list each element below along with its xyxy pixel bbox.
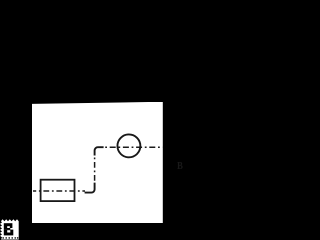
stamp letter B (blocky serif capital) bbox=[4, 223, 14, 235]
stamp white body with sawtooth edges bbox=[0, 219, 19, 239]
wire: upper elbow (solid corner) bbox=[95, 147, 104, 155]
indicator circle (lamp / machine symbol) bbox=[117, 134, 140, 157]
faint letter B in right black margin bbox=[177, 160, 183, 172]
drawing panel (white scanned schematic area) bbox=[32, 102, 163, 224]
figure label stamp B (bottom-left perforated tab) bbox=[0, 216, 22, 240]
wire: vertical dash-dot centerline bbox=[94, 158, 96, 184]
stamp perforation dots bbox=[2, 237, 18, 239]
wire: lower horizontal dash-dot centerline from panel edge through block bbox=[33, 190, 85, 192]
wire: upper horizontal dash-dot centerline through circle to panel edge bbox=[105, 146, 162, 148]
wire: lower elbow (solid corner) bbox=[85, 183, 95, 193]
component block B1 (rectangle) bbox=[41, 180, 75, 201]
